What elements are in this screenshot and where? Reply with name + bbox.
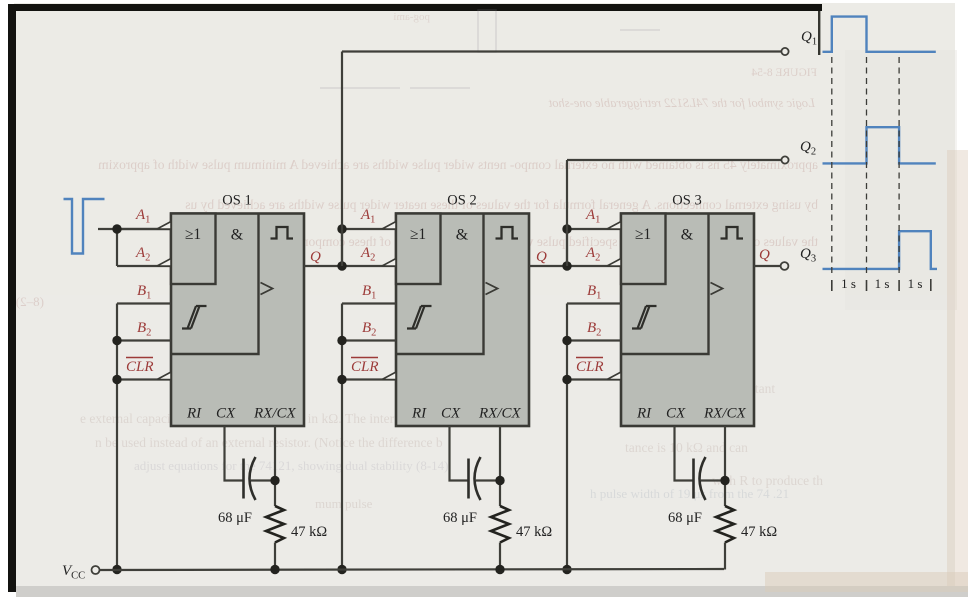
Q3 output terminal circle (781, 262, 789, 270)
OS 1 input wire A1 (117, 228, 171, 230)
svg-text:CLR: CLR (126, 359, 154, 375)
OS 2 CX pin wire (450, 426, 469, 481)
OS 1 input wire B2 (117, 339, 171, 341)
Q1 output terminal circle (781, 48, 788, 55)
svg-text:pog-ami: pog-ami (393, 11, 430, 23)
resistor R1 wire to VCC rail (274, 543, 276, 570)
node Q1 horizontal wire to terminal (342, 50, 782, 52)
OS 2 Schmitt hysteresis symbol (407, 306, 432, 329)
svg-text:FIGURE 8-54: FIGURE 8-54 (751, 67, 817, 79)
input trigger pulse waveform (blue) (64, 199, 105, 254)
OS 1 dynamic edge indicator (261, 283, 273, 295)
svg-text:RX/CX: RX/CX (703, 406, 746, 422)
OS 1 AND section divider and bottom (171, 214, 259, 355)
svg-text:&: & (681, 227, 694, 244)
OS 1 A1 edge indicator (157, 222, 171, 230)
svg-text:≥1: ≥1 (185, 226, 201, 243)
OS 2 AND section divider and bottom (396, 214, 484, 355)
OS 1 CLR edge indicator (157, 372, 171, 380)
svg-text:47 kΩ: 47 kΩ (516, 524, 552, 540)
capacitor C1 plate (242, 459, 245, 499)
OS 1 junction dot at VCC rail (112, 565, 121, 574)
OS 3 OR section box (&#8805;1) (621, 214, 666, 285)
OS 2 A1-A2 tie vertical wire (341, 229, 343, 266)
timing dashed line t1 (866, 57, 868, 276)
junction dot OS2 A2 input (337, 261, 346, 270)
OS 3 AND section divider and bottom (621, 214, 709, 355)
Q1 waveform (823, 17, 936, 52)
OS 2 B1/B2/CLR tie wire to VCC rail (341, 304, 343, 570)
scan bottom gray strip (16, 586, 968, 597)
OS 3 A1 edge indicator (607, 222, 621, 230)
svg-text:OS 2: OS 2 (447, 193, 476, 209)
OS 3 junction dot at B2 (562, 336, 571, 345)
svg-text:h pulse width of 19 μs from th: h pulse width of 19 μs from the 74 .21 (590, 486, 789, 501)
svg-text:tance is 10 kΩ and can: tance is 10 kΩ and can (625, 440, 748, 455)
VCC rail wire (100, 569, 725, 570)
OS 2 dynamic edge indicator (486, 283, 498, 295)
svg-text:1 s: 1 s (908, 276, 923, 291)
one-shot OS 1 block body (171, 214, 304, 427)
OS 3 B1/B2/CLR tie wire to VCC rail (566, 304, 568, 570)
junction dot R1 at VCC rail (270, 565, 279, 574)
resistor R3 zigzag (716, 506, 734, 543)
OS 2 input wire A1 (342, 228, 396, 230)
svg-text:OS 3: OS 3 (672, 193, 701, 209)
node Q2 takeoff vertical wire (566, 160, 568, 266)
OS 3 junction dot at A1 (562, 224, 571, 233)
svg-text:Q: Q (759, 247, 770, 263)
bleed-through text (show-through), forward (80, 381, 823, 511)
OS 2 OR section box (&#8805;1) (396, 214, 441, 285)
capacitor C3 curved plate (700, 457, 706, 500)
junction dot OS3 A2 input (562, 261, 571, 270)
svg-text:mum pulse: mum pulse (315, 496, 373, 511)
timing dashed line t2 (898, 57, 900, 276)
svg-text:by using external connections.: by using external connections. A general… (185, 197, 818, 212)
capacitor C1 curved plate (250, 457, 256, 500)
OS 3 junction dot at VCC rail (562, 565, 571, 574)
OS 1 Schmitt hysteresis symbol (182, 306, 207, 329)
wire capacitor C2 to RX/CX line (476, 479, 500, 481)
svg-text:68 μF: 68 μF (218, 510, 252, 526)
OS 3 input wire A2 (567, 265, 621, 267)
OS 2 CLR edge indicator (382, 372, 396, 380)
OS 1 junction dot at CLR (112, 375, 121, 384)
junction dot R2 at VCC rail (495, 565, 504, 574)
svg-text:RI: RI (186, 406, 202, 422)
svg-text:Logic symbol for the 74LS122 r: Logic symbol for the 74LS122 retriggerab… (548, 96, 816, 110)
svg-text:CLR: CLR (351, 359, 379, 375)
faint figure fragment bleed (320, 10, 660, 88)
resistor R3 wire to VCC rail (724, 543, 726, 570)
svg-text:adjust equations for the 74121: adjust equations for the 74121, showing … (134, 458, 448, 473)
svg-text:OS 1: OS 1 (222, 193, 251, 209)
svg-text:68 μF: 68 μF (443, 510, 477, 526)
node Q1 takeoff vertical wire (341, 52, 343, 267)
OS 1 input wire CLR (117, 378, 171, 380)
bleed-through text (reverse page), mirrored (16, 11, 818, 309)
OS 3 input wire A1 (567, 228, 621, 230)
OS 1 CX pin wire (225, 426, 244, 481)
svg-text:RX/CX: RX/CX (478, 406, 521, 422)
OS 3 junction dot at CLR (562, 375, 571, 384)
OS 3 A1-A2 tie vertical wire (566, 229, 568, 266)
OS 2 input wire A2 (342, 265, 396, 267)
OS 3 CLR edge indicator (607, 372, 621, 380)
wire capacitor C3 to RX/CX line (701, 479, 725, 481)
OS 1 input wire A2 (117, 265, 171, 267)
junction dot cap/resistor node OS 1 (270, 476, 279, 485)
svg-text:CX: CX (666, 406, 686, 422)
OS 3 input wire CLR (567, 378, 621, 380)
OS 2 one-shot pulse glyph (496, 227, 519, 239)
svg-text:Q: Q (310, 249, 321, 265)
svg-text:n be used instead of an extern: n be used instead of an external resisto… (95, 435, 443, 450)
svg-text:47 kΩ: 47 kΩ (741, 524, 777, 540)
OS3 Q output wire to terminal (754, 265, 781, 267)
scan page corner mark (818, 11, 820, 55)
OS 3 input wire B1 (567, 302, 621, 304)
OS 2 input wire B1 (342, 302, 396, 304)
OS 2 input wire B2 (342, 339, 396, 341)
one-shot OS 3 block body (621, 214, 754, 427)
OS 1 RX/CX pin wire (274, 426, 276, 506)
wire capacitor C1 to RX/CX line (251, 479, 275, 481)
OS 1 B1/B2/CLR tie wire to VCC rail (116, 304, 118, 570)
OS 1 input wire B1 (117, 302, 171, 304)
Q3 waveform (823, 231, 938, 269)
OS 2 A2 edge indicator (382, 259, 396, 267)
svg-text:47 kΩ: 47 kΩ (291, 524, 327, 540)
OS 2 RX/CX pin wire (499, 426, 501, 506)
svg-text:RX/CX: RX/CX (253, 406, 296, 422)
junction dot cap/resistor node OS 2 (495, 476, 504, 485)
svg-text:&: & (456, 227, 469, 244)
svg-text:Q: Q (536, 249, 547, 265)
junction dot cap/resistor node OS 3 (720, 476, 729, 485)
node Q2 horizontal wire to terminal (567, 159, 782, 161)
resistor R2 zigzag (491, 506, 509, 543)
svg-text:(8–2): (8–2) (16, 294, 44, 309)
timing dashed line t0 (831, 57, 833, 276)
OS 1 A1-A2 tie vertical wire (116, 229, 118, 266)
svg-text:1 s: 1 s (841, 276, 856, 291)
svg-text:≥1: ≥1 (410, 226, 426, 243)
wire OS1 Q output to OS2 inputs (304, 265, 342, 267)
OS 2 A1 edge indicator (382, 222, 396, 230)
OS 3 Schmitt hysteresis symbol (632, 306, 657, 329)
wire OS2 Q output to OS3 inputs (529, 265, 567, 267)
OS 2 junction dot at B2 (337, 336, 346, 345)
resistor R2 wire to VCC rail (499, 543, 501, 570)
svg-text:CX: CX (441, 406, 461, 422)
OS 1 A2 edge indicator (157, 259, 171, 267)
OS 3 A2 edge indicator (607, 259, 621, 267)
capacitor C2 plate (467, 459, 470, 499)
capacitor C2 curved plate (475, 457, 481, 500)
svg-text:CLR: CLR (576, 359, 604, 375)
one-shot OS 2 block body (396, 214, 529, 427)
OS 1 one-shot pulse glyph (271, 227, 294, 239)
OS 1 junction dot at A1 (112, 224, 121, 233)
scan left black border bar (8, 4, 16, 592)
scan top black border bar (16, 4, 822, 11)
OS 3 RX/CX pin wire (724, 426, 726, 506)
OS 2 input wire CLR (342, 378, 396, 380)
svg-text:&: & (231, 227, 244, 244)
OS 3 one-shot pulse glyph (721, 227, 744, 239)
input trigger wire (98, 228, 171, 230)
capacitor C3 plate (692, 459, 695, 499)
scan right page-edge shading (947, 150, 968, 597)
OS 2 junction dot at A1 (337, 224, 346, 233)
svg-text:RI: RI (636, 406, 652, 422)
svg-text:CX: CX (216, 406, 236, 422)
OS 2 junction dot at VCC rail (337, 565, 346, 574)
svg-text:1 s: 1 s (875, 276, 890, 291)
OS 1 junction dot at B2 (112, 336, 121, 345)
OS 3 dynamic edge indicator (711, 283, 723, 295)
OS 3 CX pin wire (675, 426, 694, 481)
OS 1 OR section box (&#8805;1) (171, 214, 216, 285)
Q2 output terminal circle (781, 156, 788, 163)
timing tick t3 (930, 279, 932, 291)
resistor R1 zigzag (266, 506, 284, 543)
OS 3 input wire B2 (567, 339, 621, 341)
Q2 waveform (823, 127, 936, 163)
VCC terminal circle (92, 566, 100, 574)
svg-text:RI: RI (411, 406, 427, 422)
OS 2 junction dot at CLR (337, 375, 346, 384)
svg-text:68 μF: 68 μF (668, 510, 702, 526)
svg-text:≥1: ≥1 (635, 226, 651, 243)
